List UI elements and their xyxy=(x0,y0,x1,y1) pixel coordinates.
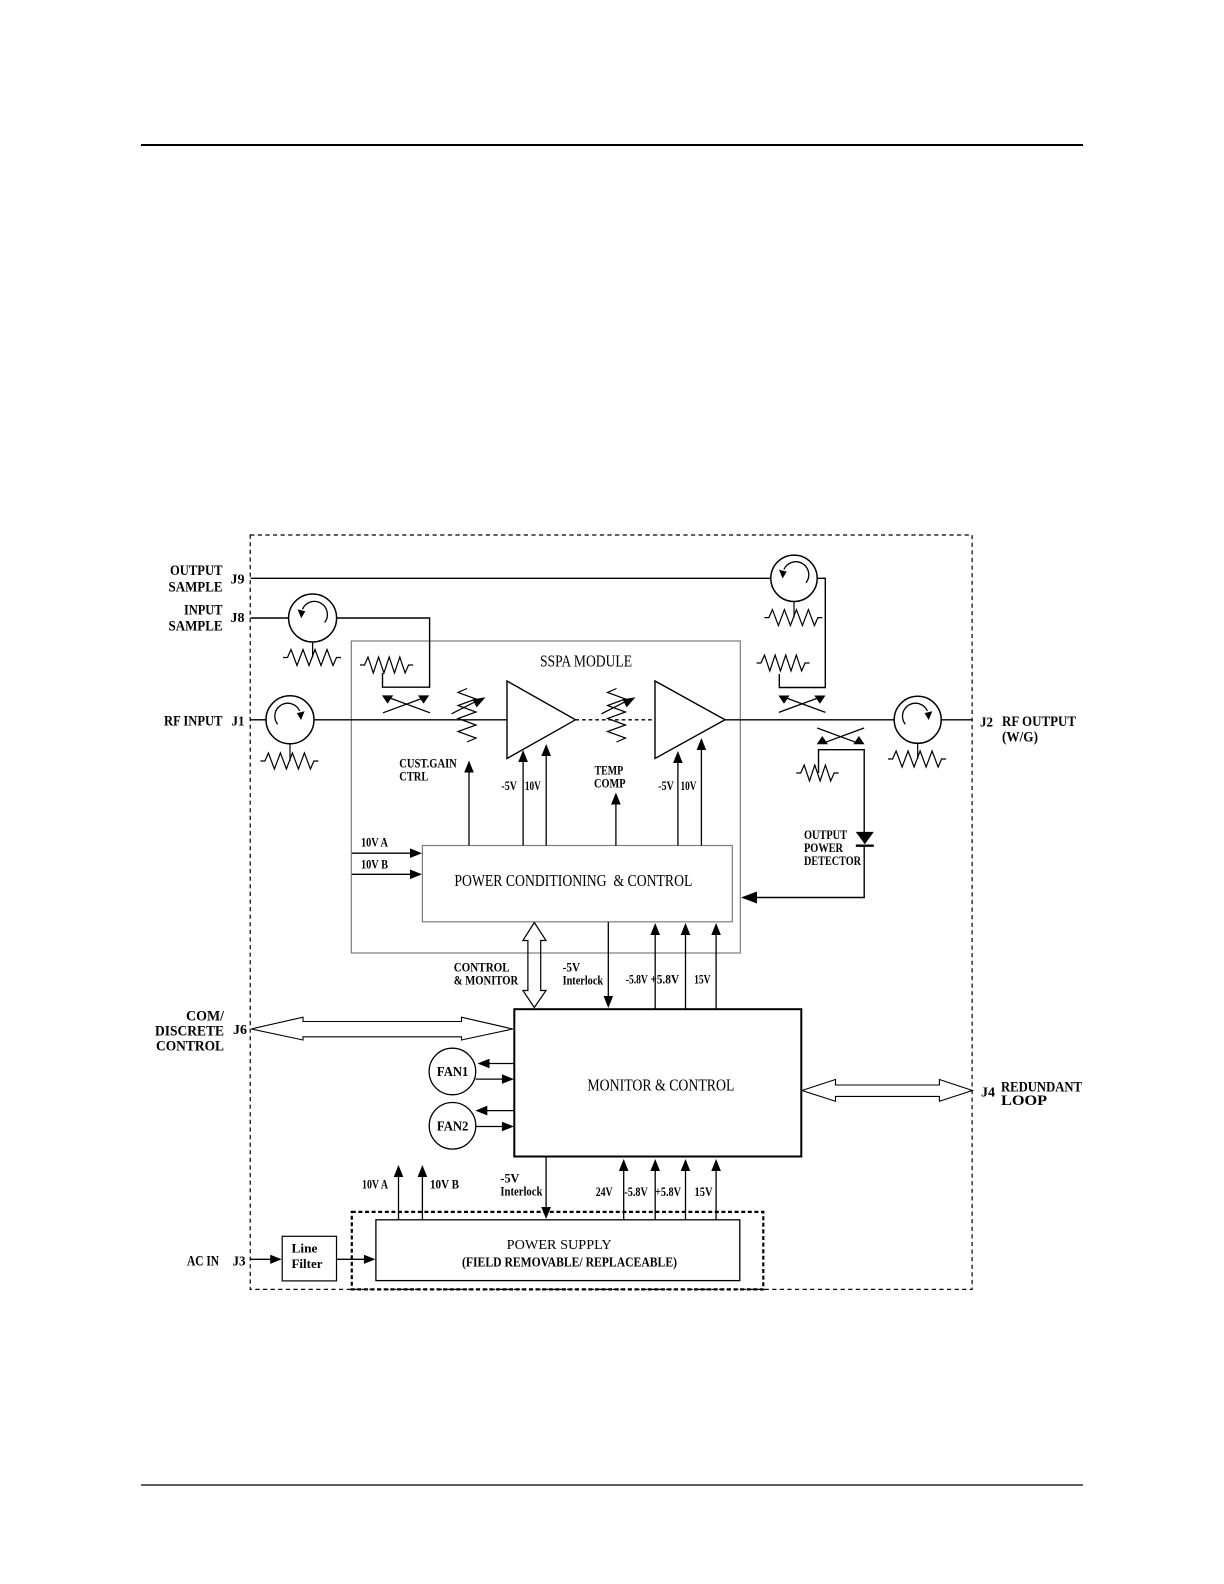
output sample coupler DC2 xyxy=(778,696,825,713)
detector coupler connector wires xyxy=(819,750,865,832)
svg-text:+5.8V: +5.8V xyxy=(655,1185,681,1199)
-5.8V arrow PS to MC xyxy=(654,1170,656,1220)
svg-text:-5V: -5V xyxy=(563,961,581,975)
10V B feed arrow xyxy=(352,873,412,875)
svg-text:OUTPUT: OUTPUT xyxy=(170,563,223,579)
wire J8 to circulator CR3 xyxy=(251,617,289,619)
variable attenuator AT1 xyxy=(452,689,488,743)
amplifier A1 xyxy=(507,681,576,759)
svg-text:SSPA MODULE: SSPA MODULE xyxy=(540,652,632,671)
fan FAN2 xyxy=(429,1103,476,1150)
arrow MC to FAN2 xyxy=(486,1110,514,1112)
wire CR4 to output coupler xyxy=(779,578,825,687)
svg-text:CUST.GAIN: CUST.GAIN xyxy=(399,757,457,771)
svg-text:FAN1: FAN1 xyxy=(437,1064,469,1079)
svg-text:J1: J1 xyxy=(232,715,245,730)
svg-text:Interlock: Interlock xyxy=(500,1185,542,1199)
detector diode CR5 xyxy=(856,832,874,846)
-5.8V arrow MC to PC xyxy=(654,934,656,1009)
svg-text:-5V: -5V xyxy=(658,779,674,793)
detector coupler DC3 xyxy=(817,728,865,744)
svg-text:15V: 15V xyxy=(695,1185,713,1199)
fan FAN1 xyxy=(429,1048,476,1095)
load resistor R-CR1 xyxy=(260,744,318,769)
RF main line A2 to CR2 xyxy=(725,719,894,721)
svg-text:Interlock: Interlock xyxy=(563,974,604,988)
temp comp arrow xyxy=(615,804,617,846)
circulator CR4 (output sample) xyxy=(771,555,817,601)
svg-text:10V B: 10V B xyxy=(430,1178,459,1192)
load resistor R-CR2 xyxy=(888,743,946,767)
sampling resistor R-OUT xyxy=(757,655,810,671)
svg-text:POWER CONDITIONING & CONTROL: POWER CONDITIONING & CONTROL xyxy=(454,871,692,890)
input coupler DC1 xyxy=(382,695,430,712)
svg-text:Line: Line xyxy=(292,1241,318,1256)
circulator CR1 (RF input) xyxy=(266,696,314,744)
svg-text:J2: J2 xyxy=(980,716,993,731)
arrow FAN2 to MC xyxy=(476,1126,503,1128)
10V A feed arrow xyxy=(352,852,412,854)
RF main line CR1 to amplifier A1 xyxy=(314,719,507,721)
svg-text:CTRL: CTRL xyxy=(399,770,428,784)
svg-text:(W/G): (W/G) xyxy=(1002,730,1038,746)
10V A arrow from PS xyxy=(398,1176,400,1220)
load resistor R-CR3 xyxy=(283,642,341,666)
svg-text:10V A: 10V A xyxy=(361,836,388,850)
svg-text:COMP: COMP xyxy=(594,777,626,791)
svg-text:TEMP: TEMP xyxy=(595,764,624,778)
svg-text:10V: 10V xyxy=(525,779,541,793)
svg-text:J6: J6 xyxy=(233,1023,247,1038)
svg-text:MONITOR & CONTROL: MONITOR & CONTROL xyxy=(587,1076,734,1095)
15V arrow MC to PC xyxy=(715,934,717,1009)
line filter box FL1 xyxy=(282,1236,336,1281)
svg-text:DISCRETE: DISCRETE xyxy=(155,1024,224,1040)
svg-text:-5V: -5V xyxy=(501,779,517,793)
svg-text:POWER SUPPLY: POWER SUPPLY xyxy=(507,1238,612,1253)
line filter to PS wire xyxy=(337,1258,366,1260)
svg-text:FAN2: FAN2 xyxy=(437,1118,469,1133)
cust gain control arrow xyxy=(468,772,470,846)
outer dashed enclosure xyxy=(250,535,972,1289)
dashed RF link A1 to A2 xyxy=(576,719,656,721)
-5V arrow to A1 xyxy=(522,761,524,846)
arrow MC to FAN1 xyxy=(488,1063,514,1065)
J4 double arrow xyxy=(802,1080,972,1102)
+5.8V arrow MC to PC xyxy=(685,934,687,1009)
svg-text:10V A: 10V A xyxy=(362,1178,388,1192)
svg-text:CONTROL: CONTROL xyxy=(454,961,510,975)
wire J1 to circulator CR1 xyxy=(251,719,267,721)
svg-text:J4: J4 xyxy=(981,1086,995,1101)
arrow FAN1 to MC xyxy=(476,1078,503,1080)
top rule xyxy=(141,144,1083,146)
power supply box PS1 xyxy=(376,1220,740,1281)
15V arrow PS to MC xyxy=(715,1170,717,1220)
svg-text:-5.8V: -5.8V xyxy=(624,1185,648,1199)
svg-text:-5V: -5V xyxy=(500,1172,519,1186)
svg-text:DETECTOR: DETECTOR xyxy=(804,853,861,868)
svg-text:J3: J3 xyxy=(233,1255,246,1270)
svg-text:(FIELD REMOVABLE/ REPLACEABLE): (FIELD REMOVABLE/ REPLACEABLE) xyxy=(462,1255,677,1270)
power supply dashed enclosure xyxy=(352,1212,764,1290)
-5V interlock arrow PC to MC xyxy=(607,922,609,997)
svg-text:10V: 10V xyxy=(681,779,697,793)
svg-text:-5.8V: -5.8V xyxy=(626,973,648,987)
wire J9 to circulator CR4 xyxy=(251,577,772,579)
circulator CR2 (RF output) xyxy=(894,696,941,743)
svg-text:& MONITOR: & MONITOR xyxy=(454,974,519,988)
SSPA module box xyxy=(351,641,740,953)
svg-text:24V: 24V xyxy=(596,1185,613,1199)
-5V interlock arrow MC to PS xyxy=(545,1157,547,1209)
-5V arrow to A2 xyxy=(677,762,679,846)
bottom rule xyxy=(141,1484,1083,1486)
svg-text:CONTROL: CONTROL xyxy=(156,1039,224,1055)
10V arrow to A1 xyxy=(545,755,547,846)
detector load resistor R-DET xyxy=(796,765,838,781)
svg-text:10V B: 10V B xyxy=(361,858,388,872)
svg-text:RF OUTPUT: RF OUTPUT xyxy=(1002,714,1076,730)
svg-text:SAMPLE: SAMPLE xyxy=(169,580,223,596)
wire CR3 to input coupler xyxy=(337,618,430,687)
svg-text:LOOP: LOOP xyxy=(1001,1093,1047,1109)
detector output wire to SSPA module xyxy=(752,847,864,898)
+5.8V arrow PS to MC xyxy=(685,1170,687,1220)
J6 double arrow xyxy=(251,1017,513,1040)
svg-text:AC IN: AC IN xyxy=(187,1254,219,1270)
10V arrow to A2 xyxy=(700,749,702,846)
AC in wire to line filter xyxy=(251,1258,273,1260)
circulator CR3 (input sample) xyxy=(289,594,337,642)
svg-text:J8: J8 xyxy=(231,611,245,626)
sampling resistor R-IN xyxy=(360,657,413,673)
svg-text:INPUT: INPUT xyxy=(184,603,223,619)
24V arrow PS to MC xyxy=(623,1170,625,1220)
svg-text:15V: 15V xyxy=(694,973,711,987)
svg-text:RF INPUT: RF INPUT xyxy=(164,714,223,730)
10V B arrow from PS xyxy=(421,1176,423,1220)
svg-text:COM/: COM/ xyxy=(186,1009,225,1025)
power conditioning box U-PC xyxy=(422,846,732,922)
temp comp attenuator AT2 xyxy=(602,689,638,743)
RF output wire CR2 to J2 xyxy=(941,719,971,721)
control monitor double arrow xyxy=(523,923,546,1008)
amplifier A2 xyxy=(655,681,725,759)
svg-text:Filter: Filter xyxy=(292,1256,323,1271)
monitor and control box U-MC xyxy=(514,1009,801,1156)
svg-text:SAMPLE: SAMPLE xyxy=(169,619,223,635)
svg-text:J9: J9 xyxy=(231,573,245,588)
load resistor R-CR4 xyxy=(764,602,822,626)
